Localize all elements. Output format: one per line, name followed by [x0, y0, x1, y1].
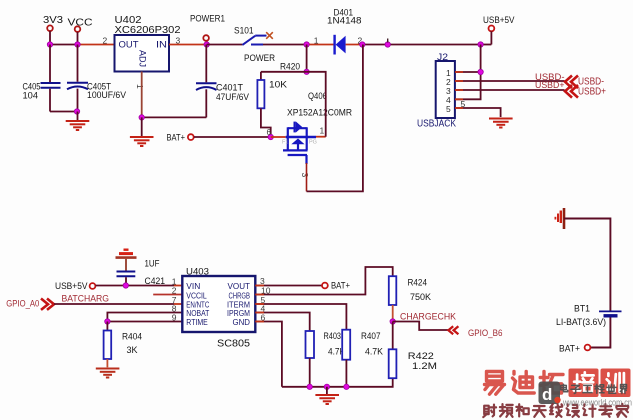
ground bottom rail [315, 395, 339, 404]
wire bus down to R420 branch [306, 45, 308, 72]
power terminal BAT+ left [167, 133, 194, 143]
off-page connector chevron GPIO_B6 [448, 326, 458, 334]
wire ITERM to R407 [255, 304, 346, 330]
node junction CHARGECHK [390, 319, 395, 324]
wire CHARGECHK to GPIO_B6 [393, 322, 448, 331]
wire R422 top lead [392, 322, 394, 350]
off-page connector chevron GPIO_A0 [41, 299, 54, 310]
svg-text:GND: GND [233, 317, 251, 327]
svg-text:LI-BAT(3.6V): LI-BAT(3.6V) [556, 317, 606, 328]
connector J2 USBJACK [417, 52, 456, 130]
svg-text:USBD+: USBD+ [535, 80, 565, 91]
wire J2 pin3 USBD+ [455, 89, 565, 91]
ground under R404 [96, 369, 120, 378]
svg-text:1: 1 [320, 126, 325, 136]
svg-text:R404: R404 [122, 332, 142, 343]
wire Q406 source down [306, 163, 308, 191]
node junction caps ground [74, 109, 79, 114]
svg-text:104: 104 [23, 91, 39, 102]
wire USB+5V stub down [490, 31, 492, 44]
ground rotated battery top [555, 208, 564, 229]
svg-text:3V3: 3V3 [43, 14, 63, 26]
wire VCC stub [77, 32, 79, 45]
diode D401 1N4148 [327, 8, 362, 55]
svg-text:USB+5V: USB+5V [483, 15, 515, 26]
svg-text:Q406: Q406 [308, 91, 327, 102]
wire R404 bottom lead [106, 359, 108, 367]
wire R404 top lead [106, 322, 108, 331]
node junction USB+5V [478, 42, 483, 47]
pin stub J2 pin4 [455, 98, 463, 100]
node junction gate [268, 134, 273, 139]
pin stub J2 pin1 [455, 71, 463, 73]
ground under U402 ADJ [130, 137, 154, 146]
svg-text:2: 2 [103, 36, 108, 46]
svg-text:BATCHARG: BATCHARG [62, 294, 110, 305]
svg-text:R420: R420 [280, 61, 300, 71]
svg-text:S101: S101 [234, 26, 254, 36]
wire J2 pin1 [455, 71, 481, 73]
svg-text:GPIO_A0: GPIO_A0 [6, 299, 39, 309]
wire R407 bottom lead [345, 360, 347, 387]
svg-text:1UF: 1UF [145, 259, 160, 270]
node junction POWER1 [204, 42, 209, 47]
node junction RTIME NOBAT [105, 319, 110, 324]
resistor R420 10K [257, 61, 300, 108]
svg-text:1: 1 [135, 84, 145, 89]
op-amp U402 regulator XC6206P302 [115, 15, 181, 72]
svg-text:XC6206P302: XC6206P302 [115, 24, 181, 36]
watermark red slogan [483, 405, 496, 418]
svg-text:POWER: POWER [244, 53, 275, 63]
pin stub J2 pin5 [455, 107, 463, 109]
svg-text:BAT+: BAT+ [331, 281, 350, 292]
wire J2 pin2 USBD- [455, 80, 565, 82]
svg-text:47UF/6V: 47UF/6V [216, 92, 250, 103]
svg-text:IN: IN [156, 40, 167, 51]
node junction 3V3 [47, 42, 52, 47]
svg-text:PG: PG [309, 140, 317, 146]
svg-text:BAT+: BAT+ [167, 133, 186, 143]
power terminal VCC [68, 17, 93, 32]
svg-text:100UF/6V: 100UF/6V [87, 90, 127, 101]
capacitor C401T [196, 83, 250, 104]
capacitor C405 [23, 82, 61, 102]
power terminal POWER1 [190, 14, 225, 41]
wire bottom joining caps [50, 111, 78, 113]
node junction rail R407 [344, 384, 349, 389]
svg-text:F1: F1 [282, 140, 288, 146]
svg-text:XP152A12C0MR: XP152A12C0MR [287, 108, 352, 119]
svg-text:POWER1: POWER1 [190, 14, 225, 25]
resistor R407 4.7K [342, 330, 383, 360]
wire IPRGM to R403 [255, 313, 309, 332]
svg-text:4.7K: 4.7K [365, 347, 384, 358]
watermark gray text line [561, 384, 568, 392]
svg-text:3: 3 [260, 276, 265, 286]
svg-text:BT1: BT1 [574, 304, 590, 315]
svg-text:5: 5 [461, 99, 466, 109]
svg-text:BAT+: BAT+ [559, 344, 580, 355]
pin stub U403 VCCIL [153, 294, 182, 296]
power bar symbol above C421 [116, 250, 137, 258]
ground J2 shell [489, 119, 513, 128]
wire gate stub [271, 136, 286, 138]
wire C405T bottom lead [77, 89, 79, 112]
wire POWER1 to switch S101 [207, 44, 243, 46]
wire ADJ to ground [141, 117, 143, 136]
power terminal BAT+ right [559, 344, 590, 355]
wire BAT+ to gate node [194, 136, 271, 138]
svg-text:J2: J2 [437, 52, 448, 63]
wire C421 bottom lead [125, 277, 127, 285]
wire GPIO_A0 to EN/NTC [54, 303, 174, 305]
node junction VCC [75, 42, 80, 47]
IC U403 SC805 [182, 267, 255, 350]
svg-text:1N4148: 1N4148 [327, 16, 362, 27]
capacitor C405T polarized [67, 82, 127, 102]
wire VOUT to BAT+ [255, 285, 321, 287]
svg-text:RTIME: RTIME [186, 317, 208, 327]
svg-text:ADJ: ADJ [138, 50, 148, 67]
svg-text:GPIO_B6: GPIO_B6 [468, 328, 503, 339]
wire drain riser [307, 72, 326, 137]
wire Q406 drain stub [316, 136, 326, 138]
pin stub VOUT [255, 285, 264, 287]
pin stub ITERM [255, 303, 264, 305]
switch S101 [234, 26, 275, 64]
resistor R422 1.2M [389, 349, 437, 378]
svg-text:5: 5 [446, 104, 451, 114]
svg-text:10K: 10K [269, 79, 287, 89]
wire diode cathode lead [310, 44, 335, 46]
wire power bar to C421 [125, 259, 127, 271]
wire ADJ horizontal to C401T [142, 116, 207, 118]
wire bus to U402 OUT pin 2 [78, 44, 115, 46]
resistor R404 3K [104, 331, 142, 360]
svg-text:USB+5V: USB+5V [55, 281, 88, 292]
battery BT1 LI-BAT [556, 304, 622, 329]
wire J2 pin5 to ground [455, 108, 501, 117]
svg-text:U403: U403 [186, 267, 209, 278]
wire U402 IN pin 3 to POWER1 node [169, 44, 207, 46]
svg-text:USBD+: USBD+ [578, 87, 606, 98]
wire NOBAT to riser [107, 313, 182, 322]
svg-text:3: 3 [300, 173, 310, 178]
svg-text:3K: 3K [127, 345, 139, 356]
pin stub J2 pin2 [455, 80, 463, 82]
wire ground to battery [564, 219, 610, 311]
node junction rail ground [324, 384, 329, 389]
wire C405T top lead [77, 45, 79, 82]
resistor R403 4.7K [306, 331, 346, 358]
wire source rail to bus riser [307, 45, 363, 192]
wire top bus 3V3 to VCC [50, 44, 78, 46]
wire 3V3 stub [49, 31, 51, 45]
node junction J2 pin1 [478, 69, 483, 74]
svg-text:USBJACK: USBJACK [417, 119, 456, 130]
svg-text:R424: R424 [408, 278, 428, 289]
wire C401T bottom lead [205, 89, 207, 117]
capacitor C421 1UF [117, 259, 166, 288]
wire bus diode to USB node [362, 44, 480, 46]
svg-text:www.eeworld.com.cn: www.eeworld.com.cn [562, 398, 632, 409]
pin stub U403 EN/NTC [174, 303, 182, 305]
node junction rail R403 [307, 384, 312, 389]
power terminal USB+5V top [483, 15, 515, 31]
svg-text:750K: 750K [410, 292, 432, 303]
pin stub IPRGM [255, 312, 264, 314]
wire USB+5V to U403 VIN [96, 285, 175, 287]
resistor R424 750K [389, 276, 432, 305]
power terminal BAT+ mid [322, 281, 350, 292]
power terminal 3V3 [43, 14, 63, 31]
off-page connector chevron USBD- [565, 76, 578, 89]
wire branch left to R420 [261, 71, 307, 73]
svg-text:R407: R407 [361, 331, 381, 342]
watermark big red text [485, 369, 631, 398]
watermark gray logo box [539, 382, 561, 405]
svg-text:1.2M: 1.2M [412, 361, 437, 372]
svg-text:9: 9 [172, 313, 177, 323]
off-page connector chevron USBD+ [565, 85, 578, 98]
svg-text:OUT: OUT [119, 40, 139, 51]
wire C405 bottom lead [49, 89, 51, 112]
node junction ADJ ground [139, 115, 144, 120]
pin stub J2 pin3 [455, 89, 463, 91]
wire GND down [255, 322, 282, 387]
wire diode anode lead [346, 44, 363, 46]
wire ground rail [282, 378, 393, 387]
svg-text:d: d [542, 385, 552, 404]
wire CHRGB to R424 [255, 267, 392, 295]
wire R403 bottom lead [309, 358, 311, 387]
pin stub CHRGB [255, 294, 264, 296]
ground under C405T [66, 121, 90, 130]
svg-text:6: 6 [267, 128, 272, 137]
wire S101 to diode node [263, 44, 310, 46]
wire C405 top lead [49, 45, 51, 83]
wire battery to BAT+ terminal [591, 318, 610, 348]
node junction C421 VIN [123, 283, 128, 288]
svg-text:2: 2 [172, 286, 177, 296]
wire R420 bottom to gate node [261, 108, 271, 137]
svg-text:R403: R403 [324, 331, 342, 342]
svg-text:SC805: SC805 [217, 339, 250, 350]
wire USB node down to J2 pins [455, 45, 481, 100]
wire R420 top lead [260, 72, 262, 80]
wire U402 ADJ pin down [141, 72, 143, 118]
node junction S101 R420 [304, 42, 309, 47]
wire USB node to USB+5V stub [481, 44, 492, 46]
svg-text:VCC: VCC [68, 17, 93, 29]
node junction small [385, 39, 390, 48]
wire RTIME to riser [107, 321, 182, 323]
power terminal USB+5V bottom [55, 281, 95, 292]
wire rail ground stem [326, 387, 328, 394]
node junction Q406 source net [360, 42, 365, 47]
pin stub U403 VIN [174, 285, 182, 287]
node junction R420 top [304, 69, 309, 74]
wire C401T top lead [205, 45, 207, 83]
transistor Q406 XP152A12C0MR [282, 91, 352, 164]
wire R424 bottom lead [392, 305, 394, 322]
wire to ground left [77, 112, 79, 121]
pin stub GND [255, 321, 264, 323]
